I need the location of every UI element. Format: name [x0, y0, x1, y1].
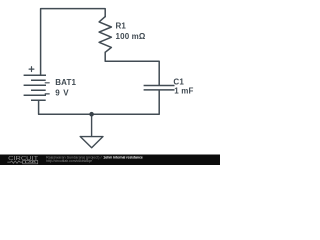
- svg-text:1ohm internal resistance: 1ohm internal resistance: [103, 155, 143, 159]
- node junction dot: [89, 112, 94, 117]
- wire top rail: [41, 9, 106, 75]
- battery BAT1 plates: [24, 75, 46, 100]
- battery label tick dashes: [45, 83, 49, 94]
- battery plus sign: [29, 67, 34, 72]
- svg-text:http://circuitlab.com/c6kbw8qe: http://circuitlab.com/c6kbw8qe: [46, 159, 92, 163]
- wire resistor to capacitor: [105, 52, 159, 85]
- capacitor C1: [144, 86, 175, 90]
- footer bar: [0, 0, 220, 165]
- svg-text:LAB: LAB: [25, 160, 38, 164]
- wire capacitor to bottom rail: [39, 91, 160, 115]
- ground: [80, 114, 103, 148]
- resistor R1: [99, 17, 111, 53]
